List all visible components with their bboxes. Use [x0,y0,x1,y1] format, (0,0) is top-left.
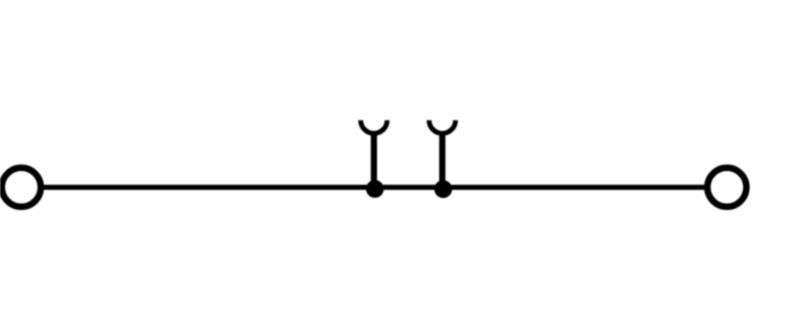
test tap 2 socket arc [429,120,455,133]
test tap 1 stem [371,132,377,189]
terminal circle right [707,168,746,207]
test tap 1 socket arc [361,120,387,133]
junction dot 1 [366,180,384,198]
wire [21,185,727,190]
test tap 2 stem [439,132,445,189]
terminal circle left [2,168,41,207]
junction dot 2 [434,180,452,198]
